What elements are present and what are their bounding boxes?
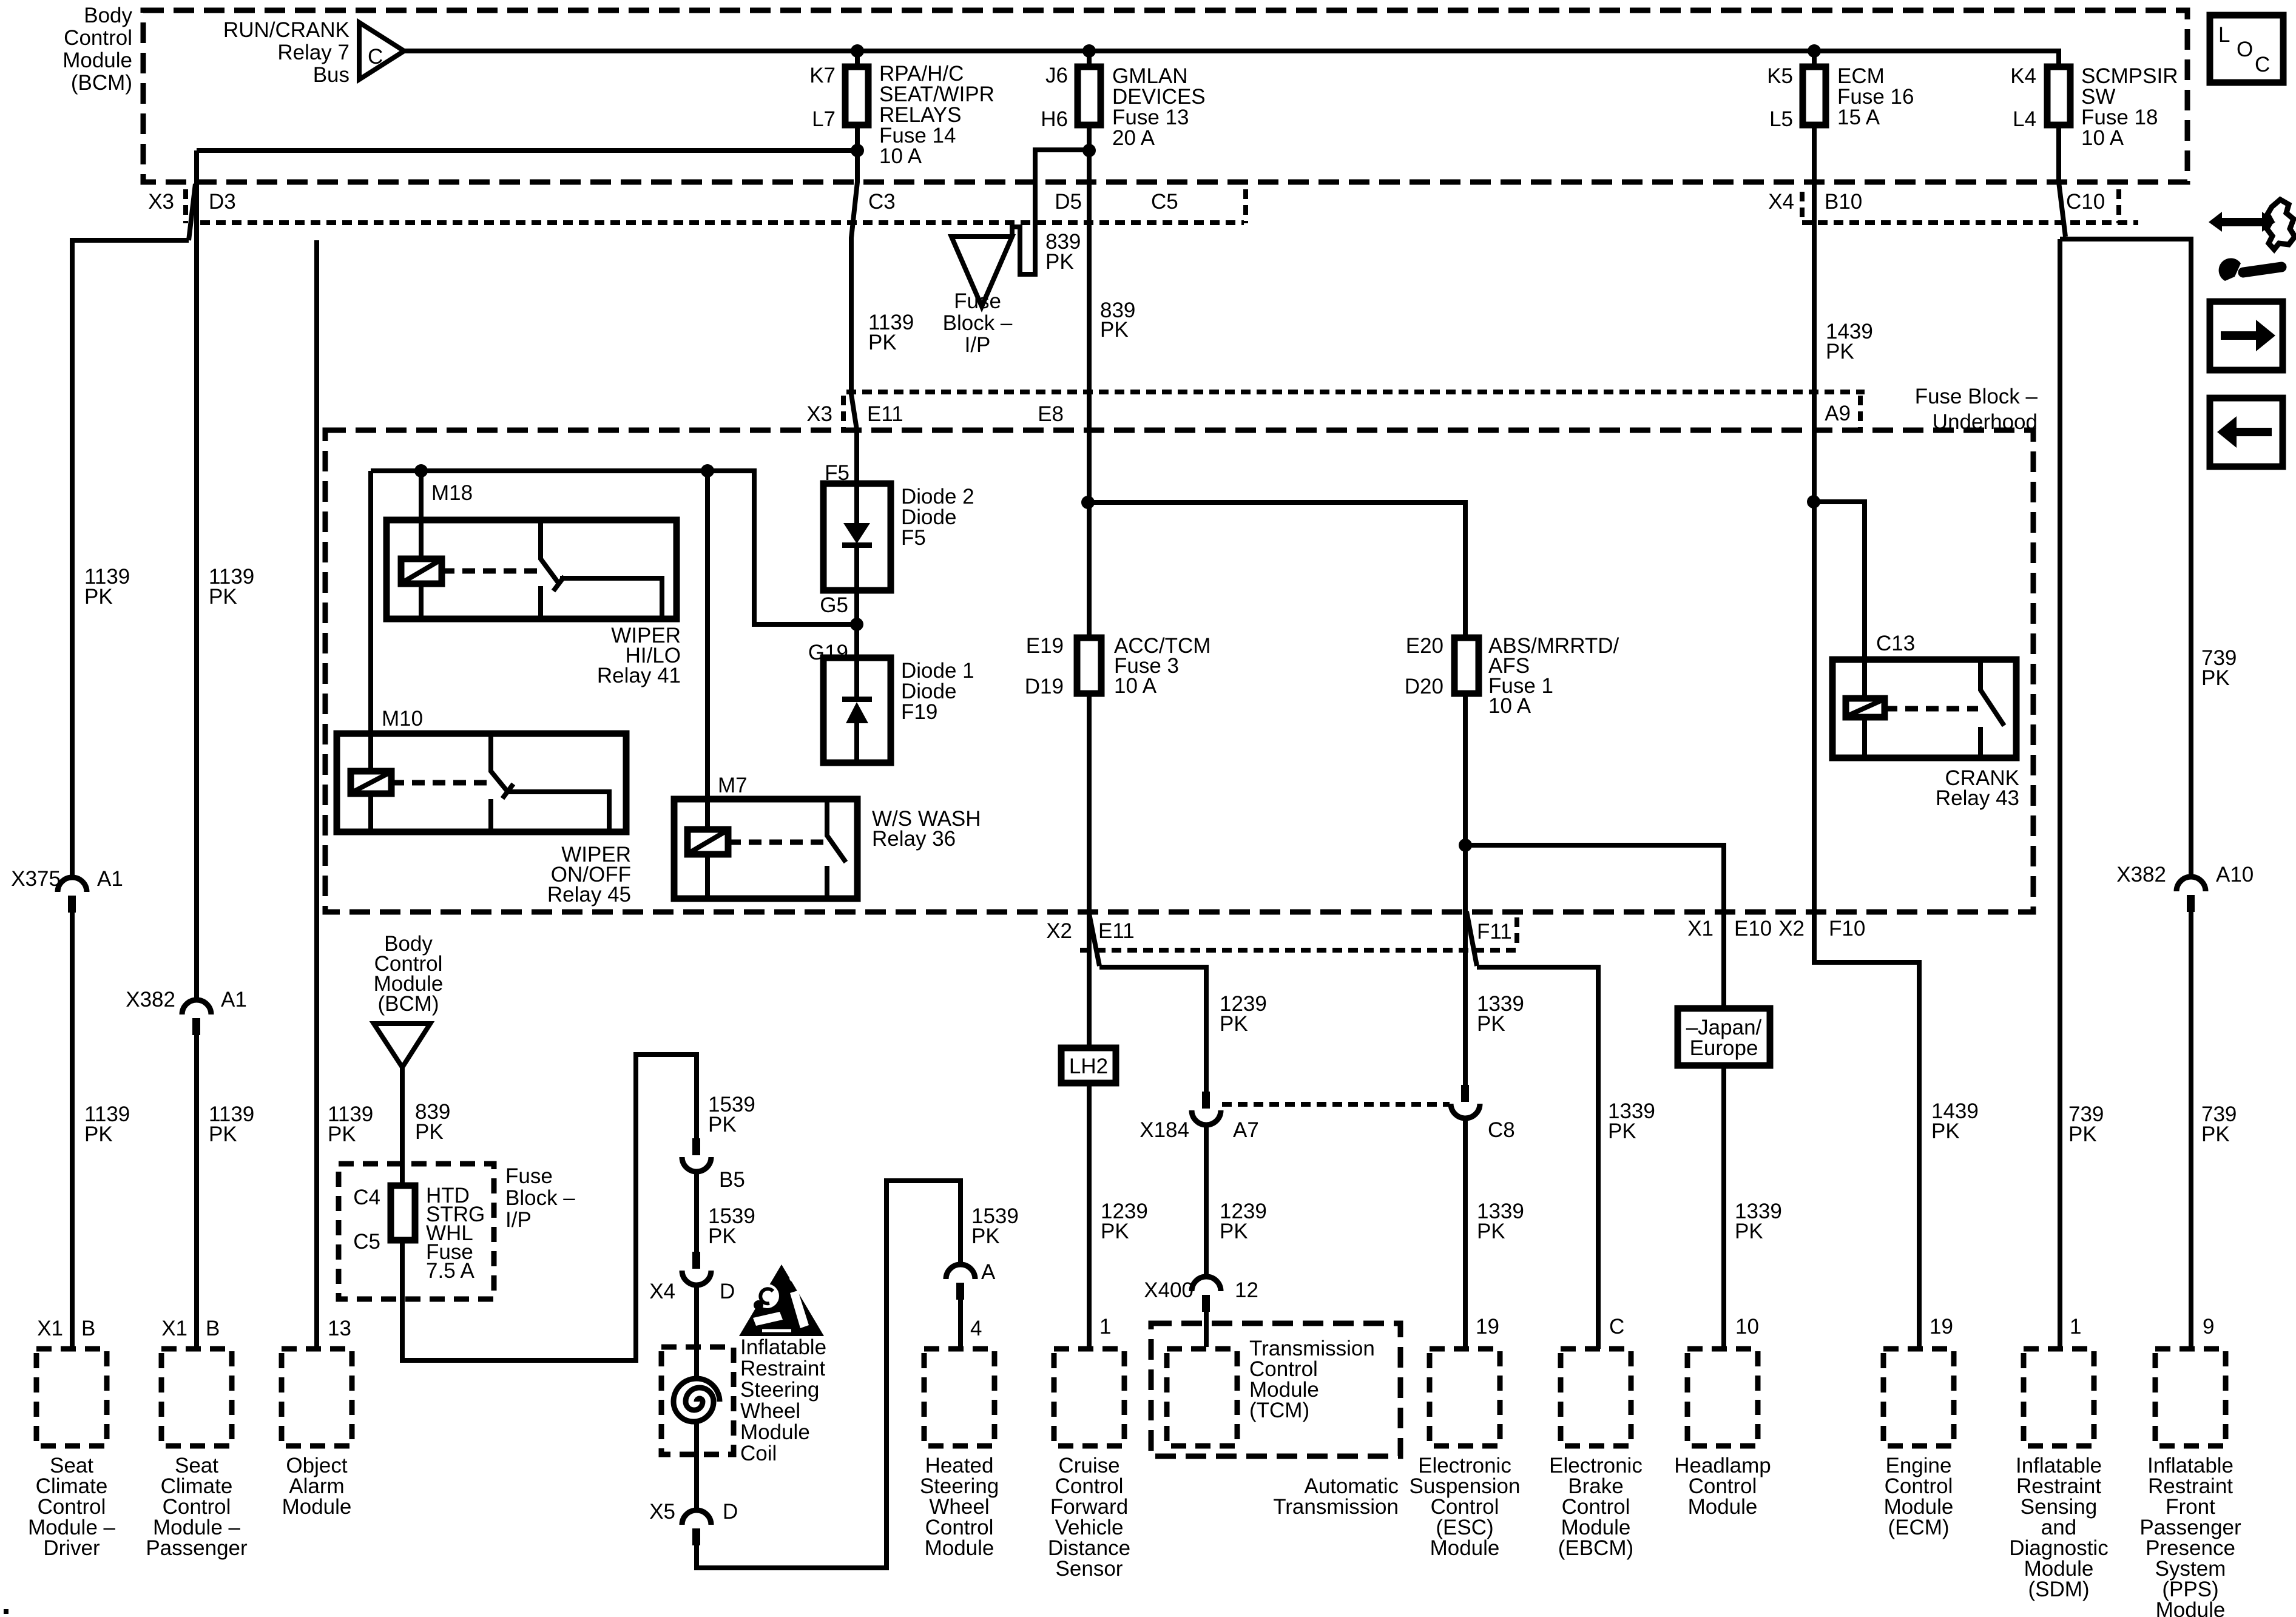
- svg-text:A9: A9: [1825, 402, 1851, 425]
- svg-text:X5: X5: [649, 1500, 675, 1524]
- svg-text:X3: X3: [806, 402, 832, 426]
- svg-text:12: 12: [1235, 1278, 1258, 1302]
- svg-text:C8: C8: [1488, 1118, 1515, 1142]
- svg-text:4: 4: [970, 1317, 982, 1340]
- svg-text:13: 13: [328, 1317, 351, 1340]
- svg-text:D: D: [723, 1500, 738, 1524]
- svg-text:L7: L7: [812, 107, 836, 131]
- svg-text:X184: X184: [1140, 1118, 1189, 1142]
- svg-text:10: 10: [1735, 1315, 1759, 1338]
- svg-text:CruiseControlForwardVehicleDis: CruiseControlForwardVehicleDistanceSenso…: [1048, 1454, 1130, 1581]
- svg-text:J6: J6: [1045, 64, 1068, 87]
- svg-text:X4: X4: [1768, 190, 1794, 214]
- svg-text:G5: G5: [820, 593, 848, 617]
- svg-text:X4: X4: [649, 1280, 675, 1303]
- svg-text:HeadlampControlModule: HeadlampControlModule: [1674, 1454, 1771, 1519]
- svg-text:LH2: LH2: [1069, 1055, 1108, 1078]
- svg-text:C3: C3: [868, 190, 896, 214]
- svg-text:M7: M7: [718, 774, 748, 797]
- svg-text:F11: F11: [1477, 920, 1512, 944]
- svg-text:1: 1: [2070, 1315, 2081, 1338]
- svg-text:B: B: [206, 1317, 220, 1340]
- svg-text:C: C: [1609, 1315, 1624, 1338]
- svg-text:C4: C4: [353, 1186, 380, 1209]
- svg-text:E10: E10: [1734, 917, 1772, 940]
- svg-text:M10: M10: [382, 707, 423, 731]
- svg-text:C10: C10: [2066, 190, 2105, 214]
- svg-text:L4: L4: [2013, 107, 2036, 131]
- svg-text:ObjectAlarmModule: ObjectAlarmModule: [282, 1454, 352, 1519]
- svg-text:B10: B10: [1825, 190, 1862, 214]
- svg-text:G19: G19: [808, 641, 848, 664]
- svg-text:M18: M18: [431, 481, 473, 505]
- svg-text:K5: K5: [1767, 64, 1793, 88]
- svg-text:C13: C13: [1876, 632, 1915, 655]
- svg-text:L: L: [2218, 23, 2230, 47]
- svg-text:E20: E20: [1406, 634, 1443, 658]
- svg-text:X375: X375: [11, 867, 61, 891]
- svg-text:X382: X382: [2116, 863, 2166, 886]
- svg-text:C5: C5: [1151, 190, 1178, 214]
- svg-text:D: D: [720, 1280, 735, 1303]
- svg-text:9: 9: [2203, 1315, 2214, 1338]
- svg-text:A7: A7: [1233, 1118, 1259, 1142]
- svg-text:19: 19: [1930, 1315, 1953, 1338]
- svg-text:D5: D5: [1055, 190, 1082, 214]
- svg-text:A1: A1: [221, 988, 247, 1011]
- svg-text:X400: X400: [1144, 1278, 1194, 1302]
- svg-text:C: C: [2255, 53, 2270, 76]
- svg-text:D20: D20: [1405, 675, 1443, 698]
- svg-text:E11: E11: [867, 402, 903, 426]
- svg-text:X1: X1: [161, 1317, 187, 1340]
- svg-text:CRANKRelay 43: CRANKRelay 43: [1936, 766, 2019, 810]
- svg-text:19: 19: [1476, 1315, 1499, 1338]
- svg-text:E19: E19: [1026, 634, 1064, 658]
- svg-text:B: B: [81, 1317, 95, 1340]
- svg-text:–Japan/Europe: –Japan/Europe: [1686, 1016, 1762, 1060]
- svg-text:A10: A10: [2216, 863, 2254, 886]
- svg-text:X1: X1: [1687, 917, 1714, 940]
- svg-text:C5: C5: [353, 1230, 380, 1254]
- svg-text:1: 1: [1099, 1315, 1111, 1338]
- svg-text:A1: A1: [97, 867, 123, 891]
- svg-text:ElectronicBrakeControlModule(E: ElectronicBrakeControlModule(EBCM): [1549, 1454, 1643, 1560]
- svg-text:EngineControlModule(ECM): EngineControlModule(ECM): [1884, 1454, 1954, 1539]
- svg-text:C: C: [368, 45, 383, 69]
- svg-text:X2: X2: [1046, 919, 1072, 943]
- svg-text:B5: B5: [719, 1168, 745, 1192]
- svg-text:D3: D3: [209, 190, 236, 214]
- svg-text:H6: H6: [1041, 107, 1068, 131]
- svg-text:X2: X2: [1778, 917, 1805, 940]
- svg-text:K4: K4: [2010, 64, 2036, 88]
- svg-text:X3: X3: [148, 190, 174, 214]
- svg-text:E8: E8: [1038, 402, 1064, 426]
- svg-text:L5: L5: [1769, 107, 1793, 131]
- svg-text:F10: F10: [1829, 917, 1865, 940]
- svg-text:A: A: [981, 1260, 996, 1284]
- svg-text:F5: F5: [825, 461, 849, 485]
- svg-text:HeatedSteeringWheelControlModu: HeatedSteeringWheelControlModule: [920, 1454, 999, 1560]
- svg-text:X382: X382: [126, 988, 175, 1011]
- svg-text:O: O: [2237, 38, 2253, 61]
- svg-text:X1: X1: [37, 1317, 63, 1340]
- svg-text:D19: D19: [1025, 675, 1064, 698]
- svg-text:K7: K7: [809, 64, 836, 87]
- svg-text:E11: E11: [1098, 919, 1135, 943]
